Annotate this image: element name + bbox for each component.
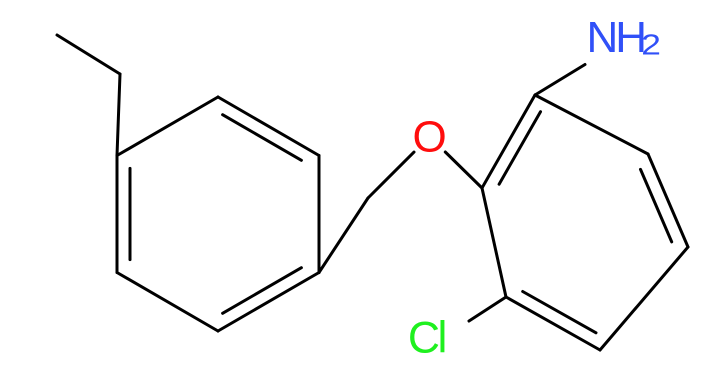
svg-text:O: O bbox=[412, 113, 446, 162]
bond ring-CH2benzyl bbox=[319, 198, 368, 273]
double-bond inner Llr-Lb bbox=[223, 268, 302, 314]
svg-text:Cl: Cl bbox=[408, 314, 447, 363]
bond A-B bbox=[535, 95, 648, 154]
bond CH2-CH3 bbox=[57, 35, 120, 74]
svg-text:NH: NH bbox=[587, 13, 648, 62]
bond Llr-Lb bbox=[218, 273, 319, 332]
double-bond inner Lll-Lul bbox=[129, 168, 132, 259]
bond C-Cl (ring E to Cl) bbox=[469, 297, 506, 321]
double-bond inner Lt-Lur bbox=[223, 115, 302, 161]
bond CH2-O bbox=[368, 152, 414, 198]
bond Lul-Lt bbox=[117, 97, 218, 156]
bond E-F bbox=[482, 188, 506, 297]
bond Lb-Lll bbox=[117, 273, 218, 332]
double-bond inner F-A bbox=[499, 112, 540, 185]
svg-text:2: 2 bbox=[641, 29, 661, 61]
bond ring-CH2ethyl bbox=[117, 74, 120, 156]
bond C-N (ring A to NH2) bbox=[535, 65, 585, 96]
bond O-ring bbox=[445, 152, 482, 188]
bond B-C bbox=[648, 154, 688, 247]
bond Lur-Llr bbox=[318, 156, 321, 273]
bond D-E bbox=[506, 297, 600, 350]
double-bond inner B-C bbox=[641, 169, 672, 242]
bond F-A bbox=[482, 95, 535, 188]
bond C-D bbox=[600, 247, 688, 350]
bond Lt-Lur bbox=[218, 97, 319, 156]
bond Lll-Lul bbox=[116, 156, 119, 273]
double-bond inner D-E bbox=[523, 292, 596, 333]
